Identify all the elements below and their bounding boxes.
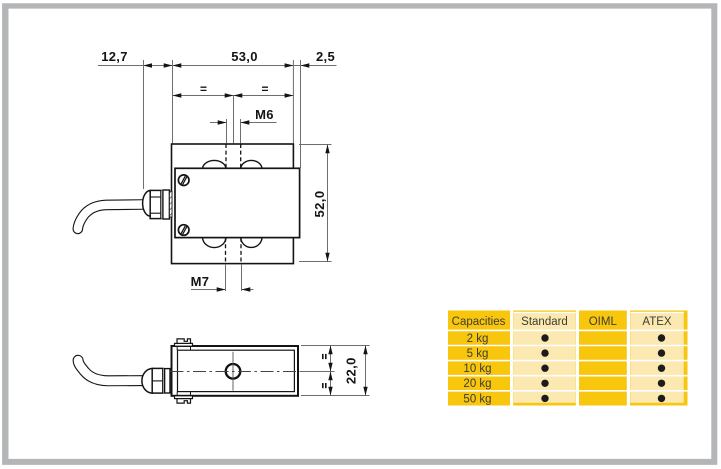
arrow M6 right [241,120,250,124]
svg-text:53,0: 53,0 [231,49,258,64]
center extension x=233 [233,96,235,144]
capacity rows [463,333,491,405]
arrow eq center-right [234,93,243,97]
equal-split dimension line y=95 [173,95,294,97]
svg-text:=: = [200,82,207,96]
arrow 53.0 left [173,63,182,67]
extension line x=172 (body left) [172,60,174,143]
cable (bottom view) [78,360,142,381]
vertical centerline [232,352,234,391]
load cell body rect (front view) [172,144,294,264]
pale column ATEX [630,312,683,403]
arrow 12.7 right [164,63,173,67]
white line above pale headers [514,311,576,313]
gland nut (bottom) [152,368,163,393]
arrow eq right [285,93,294,97]
horizontal centerline dash-dot [171,371,306,373]
pale column Standard [514,312,576,403]
svg-text:5 kg: 5 kg [467,348,489,360]
svg-text:10 kg: 10 kg [463,363,491,375]
table header texts [452,316,672,328]
gland cylinder (front) [163,190,170,219]
cable (front view) [78,205,143,229]
screw top [178,175,189,186]
arrow M6 left [218,120,227,124]
white row separators [448,330,688,390]
svg-text:OIML: OIML [589,316,618,328]
inner body rect (bottom view) [178,350,295,391]
M6 tapped hole dashed lines [225,144,227,168]
gland bell (bottom) [142,369,153,394]
arrow 22 outer top [363,346,367,355]
arrow eq left [173,93,182,97]
svg-text:=: = [261,82,268,96]
arrow eq center-left [225,93,234,97]
22.0 outer dimension line [365,346,367,396]
extension line x=143 (gland face) [143,60,145,189]
gland hatched washer (front) [169,191,172,217]
M6 dimension [226,119,228,143]
svg-text:M7: M7 [191,274,210,289]
arrow 22 mid-lower [328,372,332,381]
equal mark lower [322,383,324,388]
svg-text:12,7: 12,7 [101,49,128,64]
top spring arch left [203,160,227,168]
svg-text:50 kg: 50 kg [463,393,491,405]
svg-text:22,0: 22,0 [344,357,359,384]
arrow 22 mid-upper [328,363,332,372]
gland bell (front) [143,191,151,217]
svg-text:2 kg: 2 kg [467,333,489,345]
svg-text:52,0: 52,0 [312,191,327,218]
bottom tab washer [175,396,193,399]
equal mark upper [322,354,324,359]
table gold background [448,311,688,406]
52.0 dimension [299,144,332,146]
bottom spring arch left [203,238,227,248]
arrow 2.5 right-side [301,63,310,67]
svg-text:M6: M6 [255,107,274,122]
dimension line row1 y=65 [98,65,337,67]
bracket edge lines [176,346,178,350]
M7 tapped hole dashed lines [225,238,227,264]
top spring arch right [241,160,262,168]
bottom tab screw head [177,399,191,404]
dots standard column [541,334,548,402]
arrow 22 top [328,346,332,355]
M7 dimension [225,264,227,291]
arrow 22 bottom [328,387,332,396]
gland ring (front) [161,191,163,218]
top tab washer [175,343,193,346]
arrow 53.0 right [285,63,294,67]
arrow M7 left [217,287,226,291]
arrow 52 top [325,145,329,154]
front cover plate [175,168,300,237]
center hole [226,364,241,379]
arrow 22 outer bottom [363,387,367,396]
gland nut (front) [150,190,161,218]
white column separators [512,311,629,406]
22.0 dimension [301,345,370,347]
dots atex column [658,334,665,402]
gland ring (bottom) [163,369,165,393]
extension line x=293.4 (body right) [292,60,294,143]
gland cylinder (bottom) [165,369,170,393]
extension line x=300 (plate right) [300,60,302,168]
screw bottom [178,225,189,236]
svg-text:20 kg: 20 kg [463,378,491,390]
svg-text:Standard: Standard [521,316,568,328]
svg-text:ATEX: ATEX [642,316,672,328]
arrow 52 bottom [325,253,329,262]
bottom spring arch right [241,238,262,248]
svg-text:Capacities: Capacities [452,316,506,328]
top tab screw head [177,339,191,344]
arrow M7 right [242,287,251,291]
svg-text:2,5: 2,5 [316,49,335,64]
arrow 12.7 left [143,63,152,67]
outer plate rect (bottom view) [172,346,299,396]
gland hatched washer (bottom) [170,369,172,392]
